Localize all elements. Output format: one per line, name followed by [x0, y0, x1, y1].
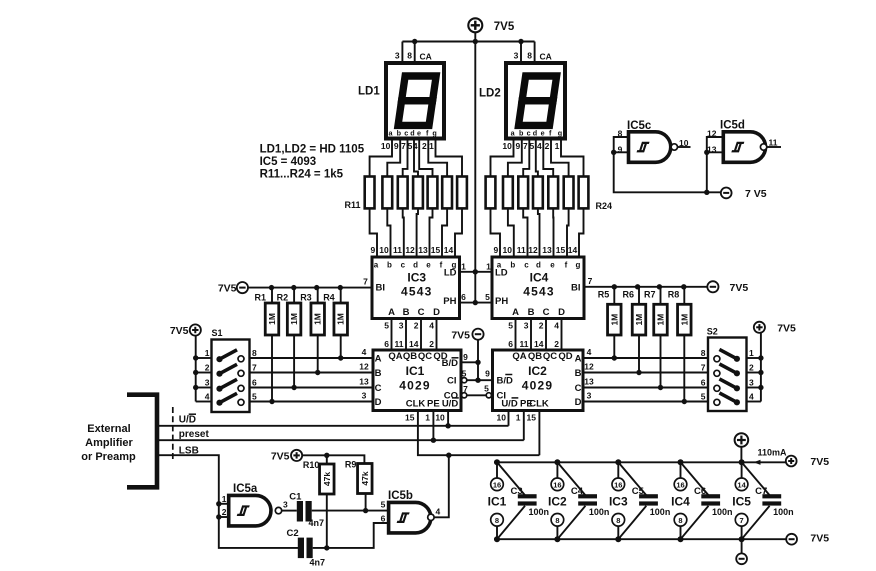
svg-text:9: 9	[463, 352, 468, 362]
svg-text:10: 10	[497, 413, 507, 423]
svg-text:2: 2	[554, 339, 559, 349]
svg-text:7V5: 7V5	[810, 533, 829, 545]
wire S1 common vertical	[195, 336, 197, 402]
svg-text:9: 9	[493, 245, 498, 255]
wire R10 top lead	[326, 455, 328, 464]
resistor R7 1M	[654, 304, 668, 335]
svg-text:4543: 4543	[523, 285, 555, 299]
nand IC5b	[389, 502, 431, 533]
svg-text:1M: 1M	[634, 314, 644, 326]
resistor R8 1M	[678, 304, 692, 335]
svg-text:IC4: IC4	[671, 495, 690, 509]
pin bubble IC2 CI	[486, 393, 491, 398]
node cap bank top 3	[615, 459, 621, 465]
wire R11 to IC3 pin	[370, 208, 377, 257]
svg-text:C3: C3	[511, 486, 523, 497]
wire BI rail left	[248, 287, 372, 289]
svg-text:5: 5	[384, 321, 389, 331]
svg-text:C7: C7	[755, 486, 767, 497]
svg-text:U/D: U/D	[442, 399, 459, 410]
wire IC5b output to clock rail	[434, 455, 449, 517]
node cap bank bottom 2	[554, 536, 560, 542]
svg-text:R24: R24	[596, 201, 613, 211]
pin bubble IC1 CI	[462, 378, 467, 383]
wire row D S1 to IC1	[250, 401, 374, 403]
wire R3 top lead	[317, 288, 319, 303]
svg-text:5: 5	[484, 384, 489, 394]
node S2 common row 2	[758, 370, 763, 375]
svg-text:1: 1	[486, 262, 491, 272]
svg-text:e: e	[417, 129, 421, 138]
svg-text:7V5: 7V5	[451, 329, 470, 341]
svg-text:IC4: IC4	[530, 271, 549, 285]
node IC5c input tie	[611, 150, 616, 155]
svg-text:4: 4	[554, 321, 559, 331]
wire PH link IC3 pin6 to IC4 pin5	[460, 302, 493, 304]
svg-text:BI: BI	[376, 283, 386, 294]
svg-text:d: d	[410, 129, 414, 138]
svg-text:13: 13	[359, 376, 369, 386]
svg-text:e: e	[426, 261, 431, 270]
power -7V5 below cap bank	[736, 553, 747, 564]
node IC5a pin1 tie	[216, 501, 221, 506]
wire R23 to IC4 pin	[567, 208, 569, 257]
node BI rail junctions R5-R8	[612, 284, 617, 289]
resistor R21	[533, 177, 543, 209]
svg-text:1M: 1M	[609, 314, 619, 326]
svg-text:R9: R9	[345, 460, 357, 470]
svg-text:CLK: CLK	[529, 399, 549, 410]
svg-text:IC5a: IC5a	[233, 483, 258, 495]
S2 contact 2	[734, 370, 740, 376]
svg-text:b: b	[387, 261, 392, 270]
svg-text:8: 8	[407, 51, 412, 61]
svg-text:IC2: IC2	[528, 364, 547, 378]
svg-text:14: 14	[737, 480, 746, 489]
op IC4 4543 decoder	[492, 257, 584, 319]
svg-text:Amplifier: Amplifier	[85, 437, 133, 449]
svg-text:11: 11	[520, 339, 529, 349]
svg-text:12: 12	[405, 245, 415, 255]
wire IC3 A to IC1 QA	[391, 319, 393, 351]
wire S2 pole 2 stub	[747, 372, 761, 374]
wire row A IC2 to S2	[583, 357, 708, 359]
svg-text:QC: QC	[543, 351, 557, 362]
wire IC1 PE drop	[432, 411, 434, 441]
node B/D junction	[475, 360, 480, 365]
svg-text:g: g	[558, 129, 562, 138]
LD2 digit 8	[519, 76, 557, 125]
svg-text:R7: R7	[644, 290, 656, 300]
wire IC5d output	[767, 146, 781, 148]
S1 contact 4	[216, 400, 222, 406]
svg-text:e: e	[541, 129, 545, 138]
resistor R3 1M	[311, 303, 325, 335]
wire IC2 PE drop	[523, 411, 525, 441]
wire C3 diagonals	[497, 462, 525, 495]
svg-text:CI: CI	[447, 376, 457, 387]
resistor R20	[518, 177, 528, 209]
node R8 to row	[682, 399, 687, 404]
svg-text:14: 14	[409, 339, 419, 349]
svg-text:5: 5	[508, 321, 513, 331]
op IC2 4029 counter	[493, 350, 584, 411]
svg-text:7: 7	[363, 277, 368, 287]
node cap bank bottom 5	[739, 536, 745, 542]
wire R1 bottom lead	[271, 335, 273, 402]
svg-text:13: 13	[418, 245, 428, 255]
node CI junction	[475, 378, 480, 383]
LD2 pin 3 wire	[520, 42, 522, 64]
svg-text:CA: CA	[420, 52, 432, 62]
svg-text:6: 6	[252, 378, 257, 388]
wire cap bank top rail	[494, 461, 786, 463]
wire R15 to IC3 pin	[430, 208, 433, 257]
wire supply pin 8 IC4	[680, 526, 682, 539]
svg-text:4543: 4543	[401, 285, 433, 299]
svg-text:15: 15	[527, 413, 537, 423]
svg-text:11: 11	[517, 245, 526, 255]
svg-text:C4: C4	[571, 486, 584, 497]
wire supply pin 8 IC3	[617, 526, 619, 539]
svg-text:1: 1	[429, 141, 434, 151]
node R3 to row	[315, 370, 320, 375]
power -7V5 right of cap bank	[786, 534, 797, 545]
svg-text:C: C	[375, 383, 382, 394]
node R9 bottom junction	[363, 508, 368, 513]
svg-text:7: 7	[463, 384, 468, 394]
capacitor C7 100n	[762, 494, 781, 498]
svg-text:1: 1	[222, 494, 227, 504]
node U/D at IC1 pin 10	[445, 423, 450, 428]
wire IC5c input pin 9	[614, 151, 629, 153]
svg-text:1: 1	[205, 348, 210, 358]
node S1 common row 1	[193, 355, 198, 360]
wire R5 top lead	[613, 287, 615, 305]
wire S1 pole 3 stub	[196, 387, 212, 389]
svg-text:8: 8	[678, 516, 682, 525]
svg-text:QA: QA	[512, 351, 526, 362]
svg-text:f: f	[565, 261, 568, 270]
IC3 pin 16 circle	[612, 478, 625, 491]
svg-text:14: 14	[444, 245, 454, 255]
power +7V5 above IC5 cap	[735, 433, 749, 447]
resistor R18	[486, 177, 496, 209]
wire IC4 A to IC2 QA	[515, 319, 517, 351]
LD1 pin 8 wire	[414, 42, 416, 64]
wire R1 top lead	[271, 288, 273, 303]
svg-text:B/D: B/D	[442, 358, 459, 369]
svg-text:6: 6	[381, 514, 386, 524]
svg-text:6: 6	[701, 378, 706, 388]
nand IC5a	[229, 495, 271, 526]
wire IC4 B to IC2 QB	[530, 319, 532, 351]
wire row C IC2 to S2	[583, 387, 708, 389]
svg-text:R11: R11	[345, 200, 361, 210]
svg-text:QC: QC	[418, 351, 432, 362]
node S2 common row 1	[758, 355, 763, 360]
svg-text:5: 5	[381, 500, 386, 510]
wire R2 top lead	[293, 288, 295, 303]
wire S2 pole 3 stub	[747, 387, 761, 389]
svg-text:13: 13	[542, 245, 552, 255]
svg-text:10: 10	[379, 245, 389, 255]
power +7V5 symbol top center	[468, 18, 482, 32]
resistor R14	[413, 177, 423, 209]
svg-text:PH: PH	[443, 296, 456, 307]
svg-text:4n7: 4n7	[310, 558, 326, 568]
svg-text:or Preamp: or Preamp	[81, 451, 136, 463]
svg-text:9: 9	[485, 369, 490, 379]
svg-text:C: C	[543, 307, 550, 318]
wire BI rail right	[584, 286, 707, 288]
capacitor C3 100n	[518, 494, 537, 498]
svg-text:1: 1	[461, 262, 466, 272]
S1 contact 3	[216, 386, 222, 392]
svg-text:g: g	[576, 261, 581, 270]
node IC5a pin2 tie	[216, 514, 221, 519]
svg-text:10: 10	[435, 413, 445, 423]
S1 contact 1	[216, 356, 222, 362]
svg-text:External: External	[87, 423, 130, 435]
wire IC5d inputs down to rail	[706, 152, 708, 192]
svg-text:8: 8	[252, 348, 257, 358]
wire cap bank bottom rail	[494, 538, 787, 540]
wire R17 to IC3 pin	[455, 208, 462, 257]
power +7V5 at S2	[754, 322, 765, 333]
IC2 pin 8 circle	[551, 514, 564, 527]
node clock junction IC5b	[446, 453, 451, 458]
svg-text:16: 16	[493, 480, 501, 489]
svg-text:15: 15	[556, 245, 566, 255]
IC1 pin 8 circle	[491, 514, 504, 527]
wire row C S1 to IC1	[250, 387, 374, 389]
wire LD2 segment c to R20	[523, 139, 529, 177]
svg-text:1M: 1M	[313, 313, 323, 325]
wire LSB to IC5a pin 2	[219, 516, 229, 518]
svg-text:U/D: U/D	[501, 399, 518, 410]
wire LD2 segment g to R24	[561, 139, 584, 177]
IC5 pin 14 circle	[735, 478, 748, 491]
svg-text:4: 4	[362, 347, 367, 357]
svg-text:IC1: IC1	[406, 364, 425, 378]
svg-text:2: 2	[749, 363, 754, 373]
node cap bank top 1	[494, 459, 500, 465]
svg-text:S2: S2	[707, 326, 718, 336]
nand IC5c	[629, 132, 671, 163]
wire R3 bottom lead	[317, 335, 319, 373]
S2 contact 3	[734, 385, 740, 391]
svg-text:1M: 1M	[656, 314, 666, 326]
svg-text:4: 4	[537, 141, 542, 151]
wire supply pin 16 IC2	[556, 462, 558, 478]
svg-text:4029: 4029	[522, 379, 554, 393]
svg-text:c: c	[404, 129, 408, 138]
svg-text:C6: C6	[694, 486, 706, 497]
svg-text:6: 6	[508, 339, 513, 349]
power -7V5 right of IC4	[707, 281, 718, 292]
wire U/D from amplifier	[157, 425, 509, 427]
node S2 common row 3	[758, 385, 763, 390]
wire supply pin 16 IC4	[680, 462, 682, 478]
svg-text:R2: R2	[277, 293, 289, 303]
svg-text:A: A	[388, 307, 395, 318]
svg-text:100n: 100n	[529, 507, 550, 517]
nand IC5d	[723, 132, 765, 163]
wire LD1 segment c to R13	[403, 139, 408, 177]
capacitor C4 100n	[578, 494, 597, 498]
svg-text:1: 1	[555, 141, 560, 151]
wire R16 to IC3 pin	[442, 208, 447, 257]
wire S1 pole 1 stub	[196, 357, 212, 359]
IC5 pin 7 circle	[735, 514, 748, 527]
svg-text:B/D: B/D	[497, 376, 514, 387]
svg-text:9: 9	[394, 141, 399, 151]
wire C6 diagonals	[681, 462, 709, 495]
svg-text:BI: BI	[571, 283, 581, 294]
svg-text:100n: 100n	[773, 507, 794, 517]
wire LD2 segment a to R18	[491, 139, 514, 177]
node PH link junction	[473, 300, 478, 305]
op IC3 4543 decoder	[372, 257, 460, 319]
svg-text:B: B	[403, 307, 410, 318]
wire R9 bottom lead	[365, 494, 367, 511]
wire LD link IC3 pin1 to IC4 pin1	[460, 271, 493, 273]
svg-text:2: 2	[539, 321, 544, 331]
wire C1 to IC5b pin 5	[312, 510, 389, 512]
svg-text:CLK: CLK	[406, 399, 426, 410]
svg-text:C2: C2	[287, 528, 299, 539]
resistor R13	[398, 177, 408, 209]
node cap bank top 4	[678, 459, 684, 465]
wire LD1 segment d to R14	[414, 139, 418, 177]
S2 contact 1	[734, 356, 740, 362]
svg-text:a: a	[374, 261, 379, 270]
node cap bank bottom 4	[678, 536, 684, 542]
svg-text:2: 2	[429, 339, 434, 349]
svg-text:IC5d: IC5d	[720, 120, 745, 132]
resistor R9 47k	[358, 464, 373, 494]
svg-text:13: 13	[584, 376, 594, 386]
wire + to top rail	[740, 447, 742, 463]
svg-text:100n: 100n	[589, 507, 610, 517]
svg-text:1M: 1M	[267, 313, 277, 325]
svg-text:8: 8	[616, 516, 620, 525]
svg-text:5: 5	[485, 292, 490, 302]
svg-text:4n7: 4n7	[309, 518, 325, 528]
svg-text:12: 12	[359, 361, 369, 371]
display LD2	[506, 63, 565, 139]
svg-text:7V5: 7V5	[810, 456, 829, 468]
svg-text:7 V5: 7 V5	[745, 188, 767, 200]
svg-text:7V5: 7V5	[218, 283, 237, 295]
wire row B IC2 to S2	[583, 372, 708, 374]
svg-text:7: 7	[252, 363, 257, 373]
wire R7 bottom lead	[660, 335, 662, 388]
svg-text:47k: 47k	[360, 471, 370, 485]
resistor R16	[442, 177, 452, 209]
wire LD2 segment e to R22	[543, 139, 553, 177]
wire R4 bottom lead	[340, 335, 342, 358]
node cap bank top 2	[554, 459, 560, 465]
node IC5d input tie	[704, 150, 709, 155]
svg-text:D: D	[575, 397, 582, 408]
capacitor C2 4n7	[298, 538, 304, 559]
node cap bank bottom 3	[615, 536, 621, 542]
svg-text:100n: 100n	[650, 507, 671, 517]
svg-text:8: 8	[618, 128, 623, 138]
resistor R5 1M	[608, 304, 622, 335]
svg-text:4: 4	[429, 321, 434, 331]
svg-text:LSB: LSB	[179, 445, 199, 456]
svg-text:R8: R8	[668, 290, 680, 300]
wire IC1 CLK to clock rail	[418, 411, 540, 456]
svg-text:10: 10	[503, 245, 513, 255]
svg-text:12: 12	[707, 128, 717, 138]
svg-text:7V5: 7V5	[730, 282, 749, 294]
capacitor C1 4n7	[297, 501, 303, 522]
node R10 to C2 rail	[324, 545, 329, 550]
svg-text:g: g	[432, 129, 436, 138]
svg-text:c: c	[524, 261, 529, 270]
resistor R1 1M	[265, 303, 279, 335]
svg-text:2: 2	[414, 321, 419, 331]
wire IC5c inputs down to -7V5 rail	[614, 152, 721, 192]
svg-text:7: 7	[740, 516, 744, 525]
node cap bank bottom 1	[494, 536, 500, 542]
svg-text:3: 3	[587, 390, 592, 400]
svg-text:LD: LD	[444, 267, 457, 278]
svg-text:IC3: IC3	[407, 271, 426, 285]
resistor R12	[382, 177, 392, 209]
resistor R23	[564, 177, 574, 209]
svg-text:R11...R24 = 1k5: R11...R24 = 1k5	[260, 169, 344, 181]
wire R8 bottom lead	[683, 335, 685, 402]
node preset at IC1 pin 1	[431, 438, 436, 443]
svg-text:9: 9	[370, 245, 375, 255]
svg-text:PE: PE	[427, 399, 440, 410]
node IC5d input tie to rail	[704, 190, 709, 195]
wire S2 common vertical	[760, 333, 762, 402]
wire LD2 segment d to R21	[536, 139, 538, 177]
svg-text:11: 11	[393, 245, 402, 255]
svg-text:3: 3	[514, 51, 519, 61]
svg-text:14: 14	[534, 339, 544, 349]
svg-text:14: 14	[568, 245, 578, 255]
wire C7 diagonals	[742, 462, 770, 495]
wire IC2 UD drop	[508, 411, 510, 426]
svg-text:LD1: LD1	[358, 86, 380, 98]
wire row D IC2 to S2	[583, 401, 708, 403]
svg-text:8: 8	[527, 51, 532, 61]
power +7V5 right of cap bank	[786, 456, 797, 467]
wire IC5a output to C1	[282, 510, 297, 512]
svg-text:3: 3	[395, 51, 400, 61]
svg-text:IC5 = 4093: IC5 = 4093	[260, 156, 317, 168]
svg-text:8: 8	[701, 348, 706, 358]
svg-text:S1: S1	[212, 328, 223, 338]
svg-text:9: 9	[515, 141, 520, 151]
wire -7V5 stem to B/D junctions	[477, 340, 479, 380]
svg-text:IC5: IC5	[732, 495, 751, 509]
power -7V5 below IC5d	[721, 188, 732, 199]
svg-text:LD2: LD2	[479, 88, 501, 100]
svg-text:5: 5	[701, 392, 706, 402]
wire LD2 segment b to R19	[508, 139, 522, 177]
wire supply pin 16 IC1	[496, 462, 498, 478]
svg-text:R1: R1	[255, 293, 267, 303]
svg-text:3: 3	[524, 321, 529, 331]
